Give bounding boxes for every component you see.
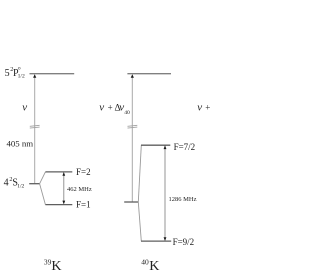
label 5 2P 1/2 [5,66,25,80]
svg-text:F=9/2: F=9/2 [173,237,195,247]
svg-text:1/2: 1/2 [17,183,24,189]
label nu + (41K, cropped at right edge) [197,102,210,114]
splitting arrow 462 MHz (double-headed) [62,172,65,204]
svg-text:5: 5 [5,68,10,79]
label nu + delta-nu 40 [99,102,130,116]
svg-text:+: + [108,102,113,112]
slant to F=7/2 [138,145,141,202]
level 5P1/2 line (39K) [30,73,75,75]
label 4 2S 1/2 [4,176,25,189]
level 5P1/2 line (40K) [127,73,171,75]
level F=7/2 line [141,144,170,146]
break symbol 39K [30,125,40,126]
svg-text:40: 40 [124,110,130,116]
level 4S centroid line (40K) [124,201,138,203]
level 4S centroid line (39K) [29,183,39,185]
label 39K [44,258,62,273]
arrowhead up 40K [131,74,134,78]
svg-text:ν: ν [99,102,104,114]
svg-text:462 MHz: 462 MHz [67,186,92,193]
svg-text:K: K [51,259,61,273]
svg-text:4: 4 [4,178,9,189]
svg-text:405 nm: 405 nm [7,138,34,148]
svg-text:40: 40 [141,258,149,267]
transition arrow 39K (vertical line) [34,77,36,184]
label 40K [141,258,159,273]
level F=2 line [45,171,72,173]
svg-text:F=7/2: F=7/2 [174,142,196,152]
level F=9/2 line [141,240,171,242]
slant to F=9/2 [138,202,141,241]
svg-text:1286 MHz: 1286 MHz [169,196,197,203]
svg-text:+: + [205,102,210,112]
svg-text:ν: ν [197,102,202,114]
transition arrow 40K (vertical line) [131,77,133,202]
slant to F=1 [40,184,46,205]
splitting arrow 1286 MHz (double-headed) [164,145,167,241]
arrowhead up 39K [33,74,36,78]
slant to F=2 [40,172,46,184]
svg-text:F=2: F=2 [76,167,91,177]
svg-text:ν: ν [22,101,27,113]
svg-text:F=1: F=1 [76,200,91,210]
svg-text:K: K [149,259,159,273]
svg-text:1/2: 1/2 [18,74,25,80]
svg-text:o: o [18,66,21,72]
level F=1 line [45,204,72,206]
break symbol 40K [128,125,138,126]
